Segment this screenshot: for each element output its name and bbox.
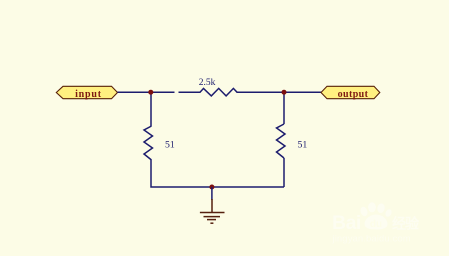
junction node C (ground) [209, 185, 214, 190]
ground stem wire [211, 187, 213, 200]
svg-text:output: output [338, 89, 369, 100]
junction node A (input branch) [148, 90, 153, 95]
wire R1-to-output [237, 91, 321, 93]
wire left-bottom [151, 160, 284, 187]
svg-text:2.5k: 2.5k [199, 78, 216, 88]
resistor R3 51 (right vertical) [277, 124, 308, 158]
resistor R1 2.5k (horizontal) [179, 78, 258, 96]
junction node B (output branch) [282, 90, 287, 95]
watermark paw toe 4 [384, 208, 393, 218]
watermark paw toe 3 [376, 203, 385, 214]
watermark paw toe 2 [368, 202, 376, 212]
svg-text:51: 51 [165, 139, 175, 150]
svg-text:jingyan.baidu.com: jingyan.baidu.com [332, 234, 411, 245]
port input [56, 86, 117, 100]
svg-text:du: du [370, 219, 382, 230]
wire right vertical [283, 92, 285, 124]
svg-text:经验: 经验 [392, 216, 420, 232]
watermark baidu logo [332, 202, 420, 244]
wire right-to-bottom [283, 158, 285, 187]
svg-text:Bai: Bai [332, 212, 361, 234]
svg-text:input: input [75, 89, 102, 100]
resistor R2 51 (left vertical) [144, 126, 175, 160]
watermark paw pad [365, 215, 388, 230]
wire left vertical [150, 92, 152, 126]
svg-text:51: 51 [298, 139, 308, 150]
ground symbol [200, 199, 225, 223]
port output [321, 86, 380, 100]
wire input-to-R1 [118, 91, 175, 93]
watermark paw toe 1 [359, 206, 368, 217]
